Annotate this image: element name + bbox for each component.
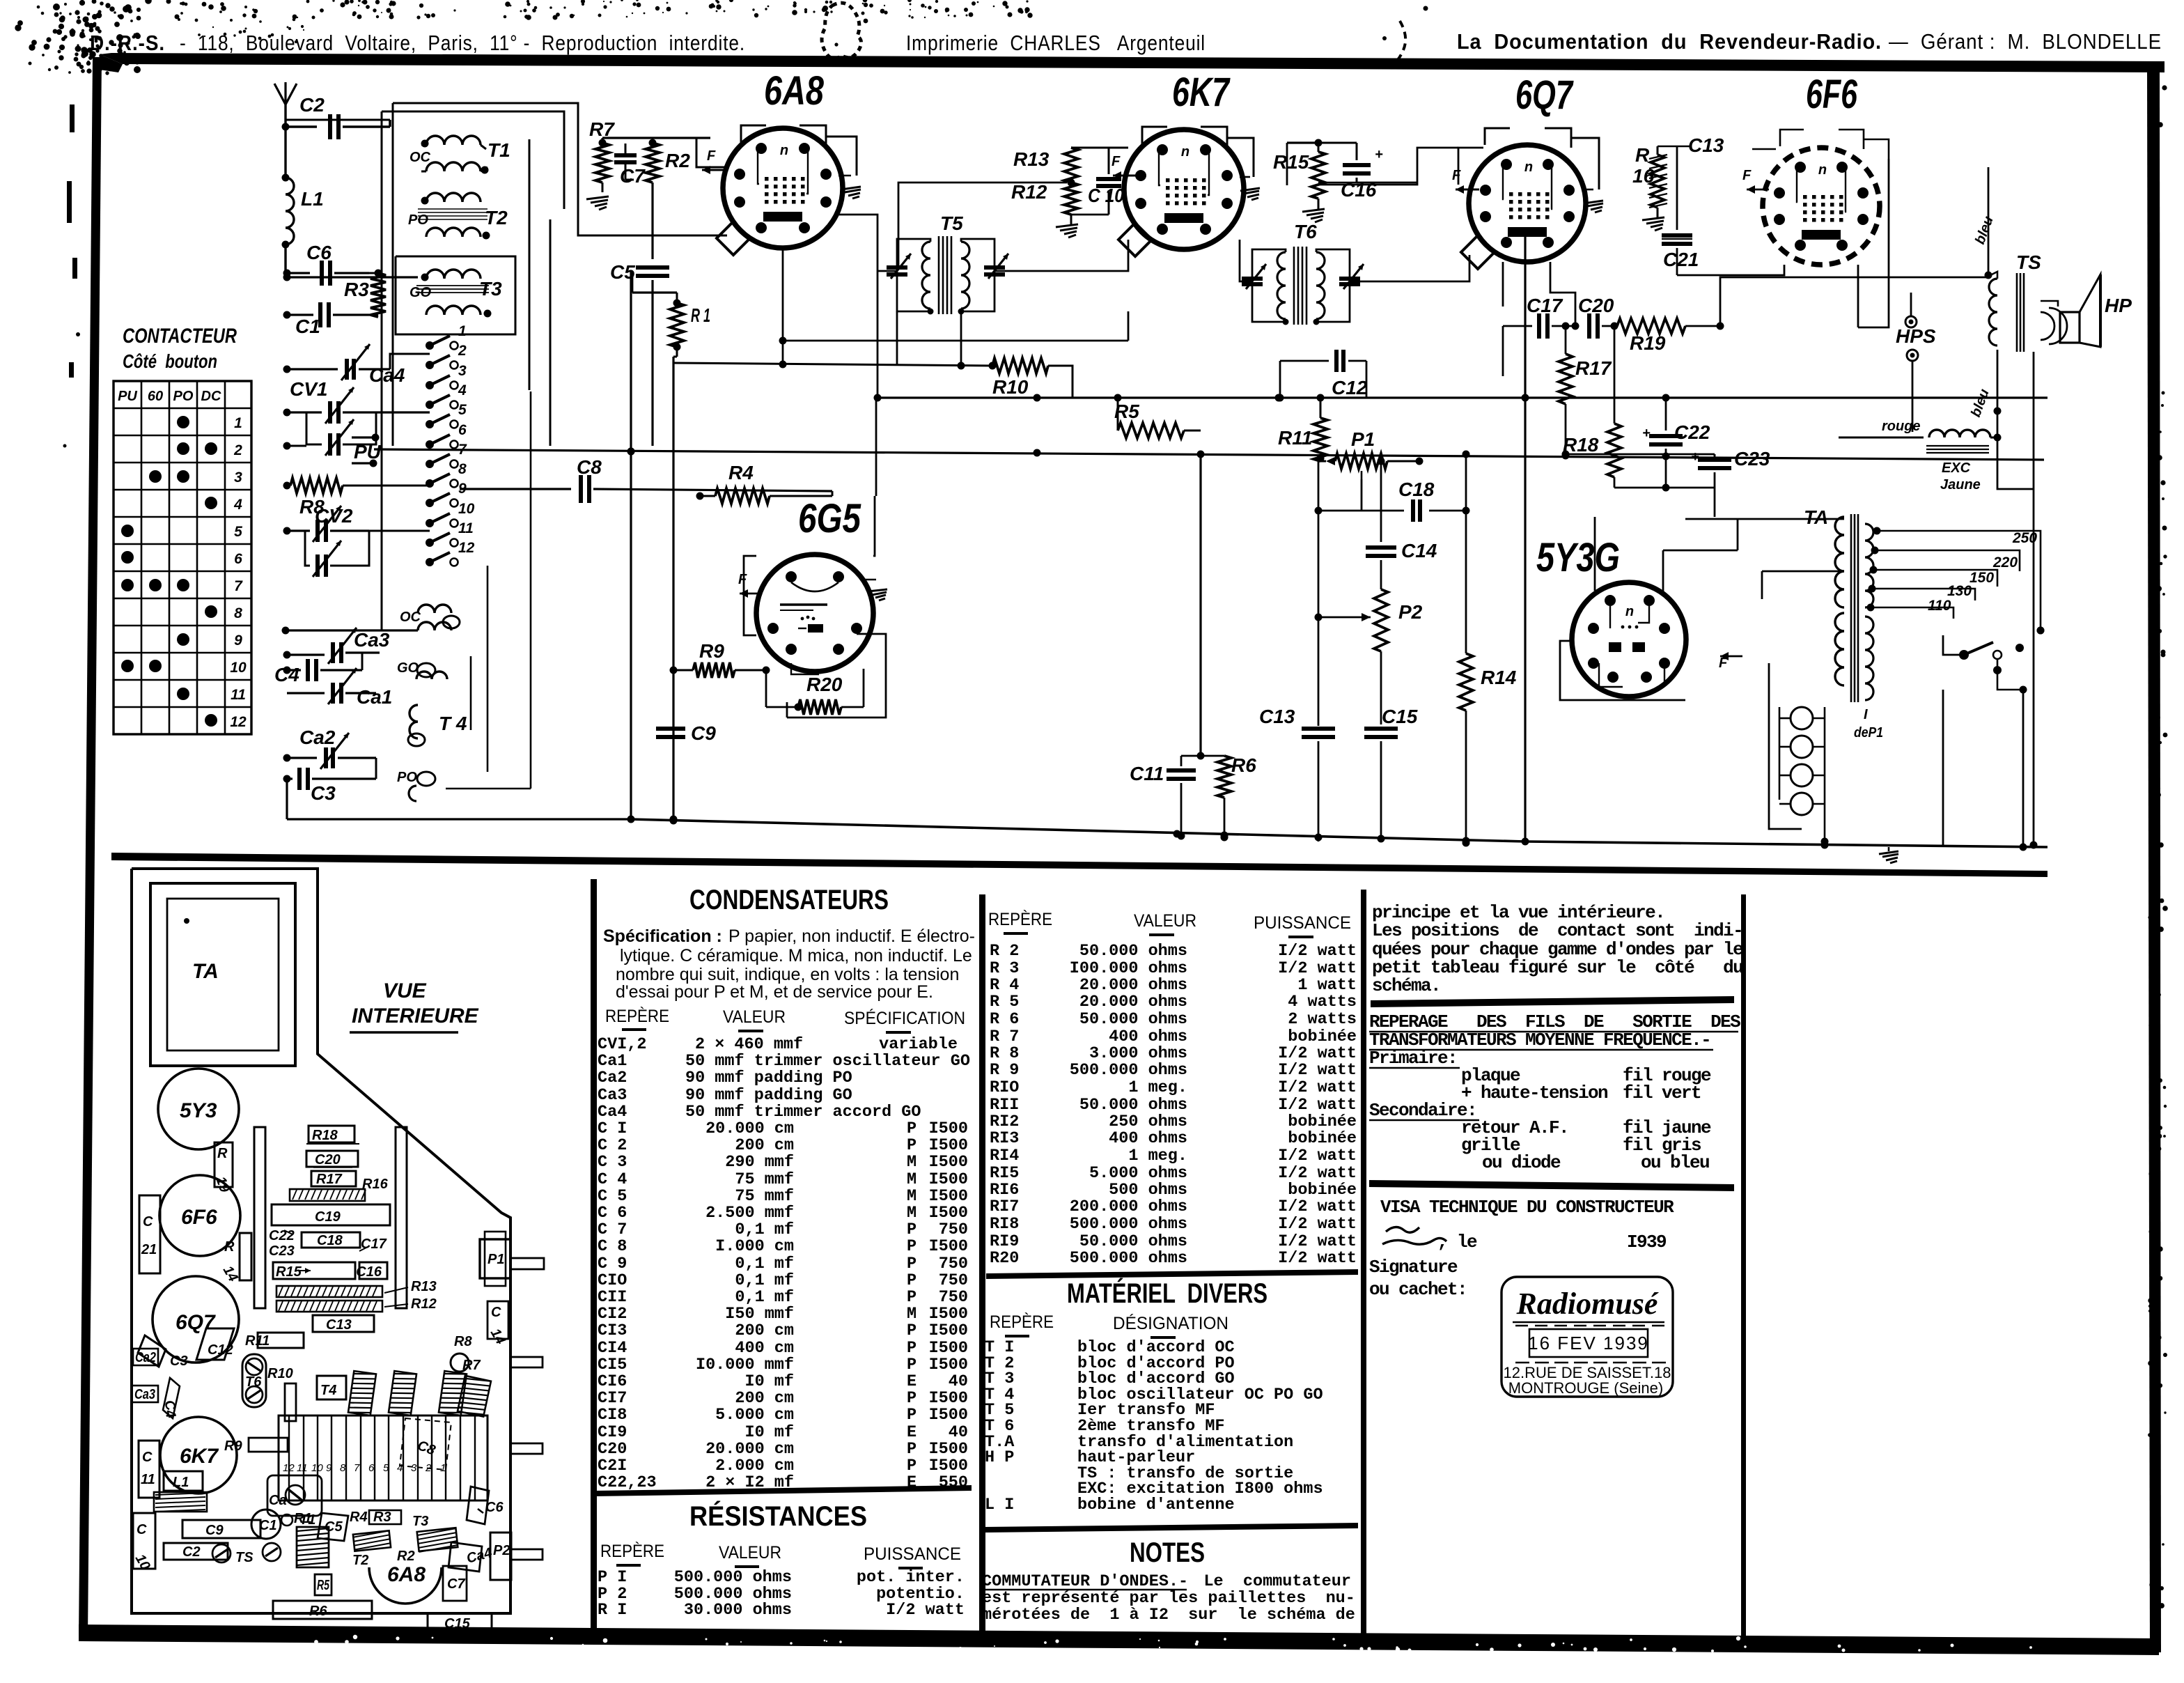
svg-text:R 4: R 4 — [990, 976, 1019, 995]
R6 tag vue — [273, 1601, 372, 1619]
svg-text:RI9: RI9 — [990, 1232, 1019, 1251]
resistor R7 — [589, 118, 615, 183]
R4 R3 tags vue — [350, 1510, 428, 1529]
svg-text:6Q7: 6Q7 — [1515, 72, 1574, 118]
svg-text:5.000 ohms: 5.000 ohms — [1089, 1164, 1187, 1183]
wire bleu top — [1972, 167, 1997, 279]
svg-text:C7: C7 — [620, 165, 646, 187]
resistor R18 — [1563, 323, 1621, 488]
wire 6F6 to C17row — [1858, 159, 1889, 327]
ground R13R12 — [1056, 215, 1078, 238]
resistor R20 — [766, 669, 864, 715]
svg-text:C 2: C 2 — [598, 1136, 627, 1155]
svg-text:R11: R11 — [245, 1333, 270, 1349]
svg-text:12: 12 — [458, 540, 475, 556]
svg-text:TS: TS — [2016, 251, 2041, 273]
svg-text:3: 3 — [234, 470, 242, 486]
svg-text:R 5: R 5 — [990, 993, 1019, 1011]
svg-text:C I: C I — [598, 1119, 627, 1138]
title notes — [1130, 1537, 1205, 1568]
svg-text:6K7: 6K7 — [180, 1445, 219, 1468]
svg-text:P: P — [907, 1457, 916, 1475]
wire 6Q7 down — [1503, 262, 1575, 326]
svg-text:C 8: C 8 — [598, 1237, 627, 1256]
svg-text:R10: R10 — [267, 1366, 293, 1381]
svg-text:I500: I500 — [929, 1119, 968, 1138]
R10 bar vue — [267, 1366, 296, 1421]
resistor R15 — [1273, 139, 1325, 199]
divider col3/col4 vertical — [1361, 890, 1746, 1637]
svg-text:, le: , le — [1437, 1232, 1477, 1252]
tube 6F6 — [1763, 72, 1880, 265]
C15 tag vue — [428, 1613, 492, 1631]
svg-text:R: R — [224, 1239, 235, 1255]
svg-text:RI5: RI5 — [990, 1164, 1019, 1183]
svg-text:PO: PO — [408, 212, 428, 228]
svg-text:REPÈRE: REPÈRE — [990, 1312, 1054, 1332]
svg-text:1 meg.: 1 meg. — [1128, 1147, 1187, 1165]
svg-text:fil vert: fil vert — [1623, 1083, 1701, 1103]
svg-text:C1: C1 — [295, 316, 320, 337]
svg-text:5Y3: 5Y3 — [180, 1099, 217, 1122]
svg-text:R 9: R 9 — [990, 1061, 1019, 1080]
svg-text:+: + — [1642, 426, 1651, 441]
resistor R2 — [646, 139, 690, 183]
svg-text:P2: P2 — [493, 1543, 510, 1558]
svg-text:+: + — [1691, 449, 1699, 465]
T6 screws vue — [242, 1354, 266, 1407]
svg-text:P1: P1 — [487, 1252, 504, 1267]
variable capacitor CV1 — [283, 378, 430, 456]
svg-text:I500: I500 — [929, 1153, 968, 1172]
svg-text:90 mmf padding PO: 90 mmf padding PO — [685, 1069, 852, 1087]
svg-text:C: C — [142, 1450, 153, 1465]
wire bus y648 — [374, 448, 2044, 460]
svg-text:C22,23: C22,23 — [598, 1473, 657, 1492]
svg-text:rouge: rouge — [1882, 419, 1921, 434]
svg-text:250: 250 — [2012, 530, 2037, 546]
ground 6K7 — [1240, 177, 1260, 200]
svg-text:VALEUR: VALEUR — [723, 1007, 786, 1027]
svg-text:CI2: CI2 — [598, 1305, 627, 1324]
svg-text:C1: C1 — [259, 1518, 277, 1533]
C7 tag vue — [443, 1566, 467, 1601]
svg-text:11: 11 — [297, 1462, 308, 1474]
wire schematic bottom bus2 — [1525, 841, 2047, 851]
svg-text:I500: I500 — [929, 1170, 968, 1189]
svg-text:n: n — [780, 143, 788, 158]
C13 tag vue — [313, 1315, 374, 1333]
svg-text:1: 1 — [458, 323, 467, 339]
wires 6G5 box — [744, 496, 886, 718]
svg-text:RI4: RI4 — [990, 1147, 1019, 1165]
svg-text:schéma.: schéma. — [1372, 975, 1440, 996]
svg-text:P: P — [907, 1356, 916, 1374]
svg-text:Primaire:: Primaire: — [1369, 1048, 1457, 1069]
wire exc out — [1997, 352, 2038, 849]
svg-text:C6: C6 — [306, 242, 331, 263]
wire C2 to T1 box — [389, 120, 391, 127]
svg-text:OC: OC — [409, 150, 431, 165]
wires 6A8 pins — [630, 125, 857, 369]
svg-text:Le commutateur: Le commutateur — [1203, 1572, 1351, 1591]
trimmer Ca4 — [283, 344, 430, 386]
svg-text:PU: PU — [354, 441, 382, 463]
tube 6K7 vue — [160, 1417, 237, 1494]
svg-text:I/2 watt: I/2 watt — [1278, 1164, 1357, 1183]
svg-text:20.000 cm: 20.000 cm — [705, 1119, 794, 1138]
svg-text:R6: R6 — [309, 1604, 327, 1619]
svg-text:I0 mf: I0 mf — [744, 1423, 794, 1442]
coil OC — [282, 605, 460, 635]
visa technique — [1380, 1197, 1674, 1218]
transformer T3 — [396, 256, 515, 334]
capacitor C13 — [1259, 706, 1335, 841]
svg-text:C2: C2 — [299, 94, 325, 116]
IF transformer T6 — [1242, 221, 1364, 325]
svg-text:C20: C20 — [1578, 295, 1614, 316]
wire C17 row link — [0, 0, 1, 1]
transformer T2 — [408, 193, 508, 240]
wire antenna to C2 — [282, 123, 318, 131]
svg-text:I/2 watt: I/2 watt — [1278, 1197, 1357, 1216]
resistor R16 — [1632, 144, 1667, 208]
svg-text:T2: T2 — [352, 1553, 368, 1568]
svg-text:HP: HP — [2105, 295, 2132, 316]
svg-text:M: M — [907, 1204, 916, 1223]
resistor R14 — [1459, 451, 1517, 847]
svg-text:5.000 cm: 5.000 cm — [715, 1406, 794, 1425]
rcol header — [988, 909, 1351, 937]
svg-text:REPÈRE: REPÈRE — [605, 1006, 669, 1026]
svg-text:CONDENSATEURS: CONDENSATEURS — [689, 885, 889, 915]
svg-text:Ca2: Ca2 — [299, 727, 336, 748]
svg-text:CONTACTEUR: CONTACTEUR — [123, 325, 237, 348]
R8 circle vue — [451, 1334, 472, 1372]
svg-text:EXC: EXC — [1942, 460, 1971, 476]
svg-text:M: M — [907, 1170, 916, 1189]
svg-text:R20: R20 — [806, 674, 843, 695]
svg-text:3: 3 — [458, 363, 467, 379]
ground R16 — [1642, 208, 1664, 231]
svg-text:I500: I500 — [929, 1305, 968, 1324]
svg-text:R8: R8 — [454, 1334, 472, 1349]
svg-text:RI8: RI8 — [990, 1215, 1019, 1234]
svg-text:I500: I500 — [929, 1356, 968, 1374]
ground 6Q7 — [1582, 189, 1603, 212]
svg-text:P: P — [907, 1237, 916, 1256]
T4 tag vue — [317, 1376, 346, 1399]
svg-text:5: 5 — [458, 402, 467, 418]
svg-text:R12: R12 — [1011, 181, 1047, 203]
svg-text:Radiomusé: Radiomusé — [1516, 1287, 1659, 1321]
divider col1/col2 vertical — [591, 879, 597, 1637]
oscillator block T4 — [408, 705, 467, 746]
svg-text:5Y3G: 5Y3G — [1536, 535, 1620, 580]
capacitor C3 — [283, 758, 377, 804]
svg-text:d'essai pour P et M, et de ser: d'essai pour P et M, et de service pour … — [616, 982, 933, 1002]
svg-text:DC: DC — [201, 389, 221, 404]
svg-text:CIO: CIO — [598, 1271, 627, 1290]
svg-text:11: 11 — [231, 687, 246, 703]
svg-text:6G5: 6G5 — [798, 496, 861, 541]
svg-text:6F6: 6F6 — [181, 1206, 217, 1229]
svg-text:6: 6 — [458, 422, 467, 438]
svg-text:I/2 watt: I/2 watt — [1278, 1044, 1357, 1063]
svg-text:Secondaire:: Secondaire: — [1369, 1100, 1476, 1121]
tube 6K7 — [1124, 70, 1244, 249]
svg-text:CI6: CI6 — [598, 1372, 627, 1391]
svg-text:RI2: RI2 — [990, 1112, 1019, 1131]
wires 6F6 pins — [1677, 130, 1889, 327]
svg-text:7: 7 — [354, 1462, 360, 1474]
svg-text:P papier, non inductif. E élec: P papier, non inductif. E électro- — [728, 926, 975, 946]
svg-text:1: 1 — [440, 1462, 446, 1474]
svg-text:I/2 watt: I/2 watt — [1278, 1232, 1357, 1251]
label F 6G5 — [738, 572, 760, 598]
svg-text:C22: C22 — [269, 1228, 295, 1243]
svg-text:9: 9 — [234, 633, 242, 649]
contacteur table — [114, 325, 251, 734]
R12 hatch bar vue — [276, 1296, 437, 1312]
C4 diamond vue — [161, 1378, 180, 1420]
svg-text:750: 750 — [939, 1220, 968, 1239]
svg-text:C 9: C 9 — [598, 1255, 627, 1273]
svg-text:Ca1: Ca1 — [357, 686, 392, 708]
svg-text:4: 4 — [458, 382, 467, 398]
svg-text:750: 750 — [939, 1288, 968, 1307]
C19 tag vue — [272, 1204, 390, 1225]
svg-text:5: 5 — [234, 524, 242, 540]
scan marks left margin — [63, 104, 81, 448]
svg-text:10: 10 — [311, 1462, 323, 1474]
svg-text:Signature: Signature — [1369, 1257, 1458, 1278]
wire vert x1724 — [1197, 451, 1205, 757]
svg-text:200 cm: 200 cm — [735, 1321, 794, 1340]
Ca screw vue — [267, 1475, 322, 1516]
svg-text:L1: L1 — [173, 1475, 189, 1490]
svg-text:8: 8 — [234, 605, 242, 621]
resistor R9 — [670, 640, 770, 678]
svg-text:R 7: R 7 — [990, 1027, 1019, 1046]
svg-text:+: + — [1375, 147, 1383, 162]
svg-text:T 4: T 4 — [439, 713, 467, 734]
signature lines — [1369, 1257, 1467, 1300]
resistor R3 — [344, 270, 386, 318]
svg-text:M: M — [907, 1187, 916, 1206]
svg-text:PO: PO — [397, 770, 417, 785]
svg-text:R4: R4 — [728, 462, 754, 483]
svg-text:R7: R7 — [589, 118, 615, 140]
trimmer Ca1 — [287, 668, 392, 708]
capacitor C23 — [1566, 448, 1770, 488]
tube 6K7 diamond — [1118, 223, 1152, 256]
resistor R1 — [670, 293, 710, 357]
svg-text:RÉSISTANCES: RÉSISTANCES — [689, 1500, 867, 1532]
IF transformer T5 — [887, 212, 1008, 315]
svg-text:R13: R13 — [411, 1279, 437, 1294]
R18 tag vue — [306, 1126, 359, 1144]
R7 hatch vue — [458, 1358, 491, 1418]
R16 hatch bar vue — [290, 1189, 366, 1201]
resistor R12 — [1011, 179, 1078, 215]
svg-text:R 1: R 1 — [691, 304, 710, 326]
svg-text:P: P — [907, 1119, 916, 1138]
svg-text:n: n — [1524, 160, 1533, 175]
wire R7 top — [602, 138, 648, 192]
svg-text:C14: C14 — [1401, 540, 1437, 561]
svg-text:R 8: R 8 — [990, 1044, 1019, 1063]
svg-text:9: 9 — [326, 1462, 332, 1474]
svg-text:CI5: CI5 — [598, 1356, 627, 1374]
svg-text:Ca3: Ca3 — [598, 1086, 627, 1105]
svg-text:I/2 watt: I/2 watt — [886, 1601, 965, 1620]
svg-text:750: 750 — [939, 1271, 968, 1290]
svg-text:R10: R10 — [992, 376, 1029, 398]
svg-text:Ca3: Ca3 — [354, 629, 390, 651]
svg-text:C11: C11 — [1130, 763, 1164, 784]
materiel divers rows — [985, 1338, 1323, 1514]
svg-text:P1: P1 — [1351, 428, 1375, 450]
R11 tag vue — [245, 1333, 304, 1349]
frame right bar — [2147, 70, 2168, 1652]
C11 tag vue — [139, 1441, 159, 1498]
svg-text:2: 2 — [458, 343, 467, 359]
svg-text:C20: C20 — [315, 1152, 341, 1168]
svg-text:CI9: CI9 — [598, 1423, 627, 1442]
C5 para vue — [318, 1513, 348, 1541]
svg-text:75 mmf: 75 mmf — [735, 1170, 794, 1189]
C6 arrow vue — [467, 1487, 504, 1524]
R13 hatch bar vue — [276, 1279, 437, 1297]
svg-text:2 × 460 mmf: 2 × 460 mmf — [695, 1035, 803, 1054]
svg-text:Ca4: Ca4 — [598, 1103, 627, 1122]
svg-text:C9: C9 — [205, 1523, 224, 1538]
svg-text:C5: C5 — [325, 1519, 343, 1535]
svg-text:L I: L I — [985, 1496, 1014, 1514]
T2 hatch vue — [352, 1530, 391, 1568]
svg-text:2.500 mmf: 2.500 mmf — [705, 1204, 794, 1223]
svg-text:I/2 watt: I/2 watt — [1278, 1215, 1357, 1234]
tube 6A8 diamond — [717, 222, 750, 255]
svg-text:RI6: RI6 — [990, 1181, 1019, 1200]
svg-text:I: I — [1864, 707, 1868, 722]
svg-text:R14: R14 — [1481, 667, 1517, 688]
specification paragraph — [603, 926, 975, 1002]
svg-text:6Q7: 6Q7 — [175, 1311, 216, 1334]
svg-text:90 mmf padding GO: 90 mmf padding GO — [685, 1086, 852, 1105]
svg-text:6F6: 6F6 — [1806, 72, 1858, 117]
svg-text:INTERIEURE: INTERIEURE — [352, 1005, 479, 1027]
R1 screw vue — [281, 1511, 312, 1526]
wire R2 bus — [648, 137, 710, 139]
svg-text:C 3: C 3 — [598, 1153, 627, 1172]
svg-text:P: P — [907, 1339, 916, 1358]
voltage taps TA — [1867, 527, 2045, 635]
svg-text:500 ohms: 500 ohms — [1109, 1181, 1187, 1200]
svg-text:R18: R18 — [1563, 434, 1599, 456]
svg-text:bobinée: bobinée — [1288, 1181, 1357, 1200]
svg-text:P: P — [907, 1255, 916, 1273]
svg-text:C13: C13 — [326, 1317, 352, 1333]
svg-text:50 mmf trimmer oscillateur GO: 50 mmf trimmer oscillateur GO — [685, 1052, 970, 1071]
reperage list — [1369, 1048, 1711, 1173]
wires 6K7 pins — [994, 127, 1254, 271]
svg-text:110: 110 — [1928, 598, 1951, 614]
capacitor C20 — [1572, 295, 1618, 339]
svg-text:20.000 ohms: 20.000 ohms — [1079, 976, 1187, 995]
svg-text:PUISSANCE: PUISSANCE — [1254, 913, 1351, 933]
wire vert x1260 — [874, 271, 882, 496]
capacitor C1 — [283, 302, 379, 337]
svg-text:CI4: CI4 — [598, 1339, 627, 1358]
label F 6F6 — [1742, 168, 1769, 194]
capacitor C9 — [656, 718, 716, 819]
svg-text:200.000 ohms: 200.000 ohms — [1070, 1197, 1187, 1216]
resistor R6 — [1217, 754, 1256, 841]
tube 6F6 vue — [159, 1175, 240, 1256]
svg-text:290 mmf: 290 mmf — [725, 1153, 794, 1172]
trimmer Ca3 — [283, 628, 390, 664]
svg-text:NOTES: NOTES — [1130, 1537, 1205, 1568]
capacitor C15 — [1364, 706, 1418, 841]
svg-text:C8: C8 — [577, 456, 602, 478]
svg-text:50.000 ohms: 50.000 ohms — [1079, 1232, 1187, 1251]
svg-text:T6: T6 — [245, 1374, 262, 1390]
resistor R5 — [1114, 394, 1201, 439]
wire vert x967 — [670, 357, 678, 823]
capacitor C2 — [299, 94, 390, 139]
svg-text:VISA TECHNIQUE DU CONSTRUCTEUR: VISA TECHNIQUE DU CONSTRUCTEUR — [1380, 1197, 1674, 1218]
capacitor C5 — [610, 183, 669, 446]
divider col2/col3 vertical — [979, 894, 985, 1637]
resistor R4 — [696, 462, 833, 504]
svg-text:I/2 watt: I/2 watt — [1278, 1249, 1357, 1268]
svg-text:C18: C18 — [1398, 479, 1435, 500]
svg-text:C13: C13 — [1259, 706, 1295, 727]
svg-text:CI8: CI8 — [598, 1406, 627, 1425]
svg-text:T2: T2 — [485, 207, 508, 228]
svg-text:n: n — [1818, 162, 1827, 178]
svg-text:ou diode: ou diode — [1482, 1152, 1561, 1173]
svg-text:C 5: C 5 — [598, 1187, 627, 1206]
svg-text:I500: I500 — [929, 1440, 968, 1459]
R17 tag vue — [311, 1171, 389, 1192]
commutateur paillettes 1-12 — [426, 323, 475, 566]
T1 hatch vue — [297, 1512, 329, 1567]
svg-text:Ca2: Ca2 — [135, 1350, 156, 1365]
svg-text:12: 12 — [230, 714, 247, 730]
ground R7 — [586, 196, 609, 210]
C9 tag vue — [182, 1520, 260, 1538]
svg-text:40: 40 — [949, 1372, 968, 1391]
C18 tag vue — [269, 1228, 387, 1259]
svg-text:R12: R12 — [411, 1296, 437, 1312]
wires 5Y3G — [1560, 517, 1685, 700]
wire P2 left — [1318, 458, 1320, 724]
svg-text:C16: C16 — [356, 1264, 382, 1280]
wire 6A8 plate to T5 — [838, 183, 1067, 271]
svg-text:F: F — [1452, 168, 1461, 183]
capacitor C10 — [1071, 148, 1124, 215]
capacitor C16 — [1318, 143, 1383, 201]
svg-text:I00.000 ohms: I00.000 ohms — [1070, 959, 1187, 978]
svg-text:VUE: VUE — [383, 979, 427, 1002]
svg-text:I500: I500 — [929, 1204, 968, 1223]
svg-text:200 cm: 200 cm — [735, 1136, 794, 1155]
wire left bus to R1 — [632, 272, 677, 293]
svg-text:200 cm: 200 cm — [735, 1389, 794, 1408]
